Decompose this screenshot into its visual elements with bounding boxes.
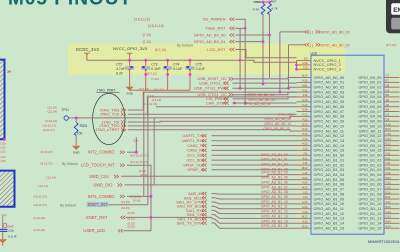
svg-text:SWD_CLK: SWD_CLK <box>89 174 109 179</box>
svg-text:GPIO_AD_B0_01: GPIO_AD_B0_01 <box>194 39 226 44</box>
wire CAN2_RX <box>212 149 297 151</box>
svg-text:M12: M12 <box>302 166 308 170</box>
svg-text:0.1UF: 0.1UF <box>196 67 205 71</box>
svg-text:0.1UF: 0.1UF <box>173 67 182 71</box>
wire SAI1_RX_BCLK <box>212 206 297 209</box>
svg-text:GPIO_AD_B0_04: GPIO_AD_B0_04 <box>247 93 274 97</box>
wire JTAG_nTRST <box>128 130 297 131</box>
svg-text:C73: C73 <box>151 63 157 67</box>
svg-text:A13: A13 <box>386 200 392 204</box>
svg-text:(10,12,17): (10,12,17) <box>33 203 47 207</box>
svg-text:A14: A14 <box>386 224 392 228</box>
svg-text:GPIO_AD_B1_11: GPIO_AD_B1_11 <box>261 205 288 209</box>
svg-text:GPIO_AD_B1_08: GPIO_AD_B1_08 <box>261 190 288 194</box>
svg-text:DCDC_3V3: DCDC_3V3 <box>76 47 100 52</box>
svg-text:N12: N12 <box>302 176 308 180</box>
svg-text:GND: GND <box>73 151 81 155</box>
pin C11 GPIO_B1_02 <box>384 164 400 166</box>
svg-text:GPIO_AD_B1_09: GPIO_AD_B1_09 <box>261 195 288 199</box>
wire bundle v1 <box>143 92 145 196</box>
svg-text:NVCC_GPIO_3V3: NVCC_GPIO_3V3 <box>113 46 148 51</box>
svg-text:TP11: TP11 <box>62 108 70 112</box>
svg-text:A8: A8 <box>386 98 390 102</box>
svg-text:F11: F11 <box>303 93 308 97</box>
svg-text:(9,15): (9,15) <box>133 199 140 203</box>
wire SPDIF_OUT <box>212 164 297 166</box>
svg-text:L13: L13 <box>303 210 308 214</box>
pin F11 GPIO_AD_B0_04 <box>297 96 312 98</box>
svg-text:E12: E12 <box>386 142 392 146</box>
svg-text:E13: E13 <box>302 224 308 228</box>
svg-text:B12: B12 <box>386 176 392 180</box>
wire INT2 riser <box>135 137 137 152</box>
svg-text:E11: E11 <box>386 195 391 199</box>
pin G14 GPIO_AD_B0_05 <box>297 101 312 103</box>
svg-text:C72: C72 <box>116 63 122 67</box>
svg-text:M13: M13 <box>302 215 308 219</box>
svg-text:B8: B8 <box>386 93 390 97</box>
junction <box>262 1 265 4</box>
wire LCD_TOUCH_INT <box>127 165 151 231</box>
svg-text:L14: L14 <box>303 137 308 141</box>
connector fragment lower <box>0 171 14 207</box>
wire GPIO_AD_B0_01 <box>235 41 263 43</box>
pin L14 GPIO_AD_B0_13 <box>297 140 312 142</box>
junction <box>295 64 298 67</box>
wire CAN_STBY <box>233 102 297 104</box>
wire JTAG_TDO <box>128 125 297 127</box>
svg-text:JTAG_MOD: JTAG_MOD <box>278 113 295 117</box>
junction <box>166 59 169 62</box>
svg-text:(9,15): (9,15) <box>128 225 135 229</box>
wire SD_PWREN <box>235 19 245 28</box>
svg-text:(12,15): (12,15) <box>121 206 130 210</box>
wire R57 net <box>269 15 271 79</box>
svg-text:JTAG_P0RT: JTAG_P0RT <box>97 89 116 93</box>
pin M12 GPIO_AD_B1_03 <box>297 169 312 171</box>
pin B9 GPIO_B0_07 <box>384 111 400 113</box>
svg-text:(6,12,17): (6,12,17) <box>43 128 55 132</box>
pin D12 GPIO_B1_07 <box>384 188 400 190</box>
svg-text:SWD_DIO: SWD_DIO <box>93 182 112 187</box>
pin D11 GPIO_B1_03 <box>384 169 400 171</box>
svg-text:LCD_TOUCH_INT: LCD_TOUCH_INT <box>81 162 115 167</box>
pin F13 GPIO_AD_B0_08 <box>297 115 312 117</box>
wire pullup drop A <box>244 28 246 103</box>
svg-text:(7,12): (7,12) <box>143 40 152 44</box>
svg-text:GPIO_AD_B0_06: GPIO_AD_B0_06 <box>244 102 271 106</box>
svg-text:GPIO_AD_B1_06: GPIO_AD_B1_06 <box>261 180 288 184</box>
svg-text:10K: 10K <box>77 132 84 136</box>
svg-text:GPIO_AD_B1_12: GPIO_AD_B1_12 <box>261 210 288 214</box>
svg-text:GPIO_AD_B0_03: GPIO_AD_B0_03 <box>321 30 350 34</box>
pin K11 GPIO_AD_B1_01 <box>297 159 312 161</box>
wire INT2_COMBO <box>127 151 136 153</box>
svg-text:B10: B10 <box>386 127 392 131</box>
wire NVCC_GPIO_3V3 stem <box>129 55 131 61</box>
pin K12 GPIO_AD_B1_14 <box>297 222 312 224</box>
svg-text:GPIO_AD_B1_15: GPIO_AD_B1_15 <box>314 226 345 231</box>
svg-text:UART1_RXD: UART1_RXD <box>182 139 205 143</box>
net alias GPIO_AD_B0_02 <box>305 43 310 46</box>
pin E11 GPIO_B1_09 <box>384 198 400 200</box>
wire UART1_RXD <box>212 140 297 142</box>
ground C72 <box>125 87 134 91</box>
pin B13 GPIO_B1_11 <box>384 208 400 210</box>
pin M14 GPIO_AD_B0_00 <box>297 77 312 79</box>
pin K14 GPIO_AD_B0_12 <box>297 135 312 137</box>
wire SWD_CLK <box>121 175 297 177</box>
pin C10 GPIO_B0_12 <box>384 135 400 137</box>
svg-text:E7: E7 <box>386 79 390 83</box>
svg-text:(9,15): (9,15) <box>128 216 135 220</box>
svg-text:(8,7,12): (8,7,12) <box>386 43 396 47</box>
pin B11 GPIO_B1_01 <box>384 159 400 161</box>
svg-text:MIMXRT1052DVL6B: MIMXRT1052DVL6B <box>368 239 400 244</box>
pin N12 GPIO_AD_B1_05 <box>297 179 312 181</box>
pin E13 GPIO_AD_B1_15 <box>297 227 312 229</box>
svg-text:(6,7,12): (6,7,12) <box>154 87 164 91</box>
wire bundle v2 <box>147 97 149 205</box>
svg-text:(8,7,12): (8,7,12) <box>147 71 157 75</box>
svg-text:J14: J14 <box>303 195 308 199</box>
svg-text:D12: D12 <box>386 186 392 190</box>
pin G12 GPIO_AD_B0_11 <box>297 130 312 132</box>
pin L11 GPIO_AD_B1_02 <box>297 164 312 166</box>
svg-text:A12: A12 <box>386 171 392 175</box>
wire bundle v3 <box>153 118 155 185</box>
svg-text:M14: M14 <box>302 74 308 78</box>
svg-text:B11: B11 <box>386 156 391 160</box>
wire JTAG_TCK branch <box>147 113 296 115</box>
capacitor C73 <box>145 60 147 66</box>
junction <box>268 34 271 37</box>
wire DCDC_3V3 feed <box>87 55 297 63</box>
wire I2C1_SCL <box>212 154 297 156</box>
svg-text:B9: B9 <box>386 108 390 112</box>
svg-text:INT2_COMBO: INT2_COMBO <box>88 150 115 155</box>
svg-text:C13: C13 <box>386 210 392 214</box>
pin D13 GPIO_B0_13 <box>384 140 400 142</box>
wire USB_OTG1_ID <box>233 82 297 84</box>
junction <box>262 40 265 43</box>
junction <box>144 73 147 76</box>
svg-text:J11: J11 <box>303 152 308 156</box>
wire USB_HOST_OC <box>233 78 297 79</box>
wire GPIO_AD_B0_03 <box>280 31 305 33</box>
pin A13 GPIO_B1_10 <box>384 203 400 205</box>
svg-text:GPIO_B1_15: GPIO_B1_15 <box>358 226 381 231</box>
svg-text:UART1_TXD: UART1_TXD <box>182 134 204 138</box>
pin J11 GPIO_AD_B1_00 <box>297 154 312 156</box>
svg-text:(4,8,11,16): (4,8,11,16) <box>134 18 150 22</box>
pin mark <box>8 70 11 72</box>
svg-text:N13: N13 <box>302 181 308 185</box>
svg-text:GPIO_AD_B1_07: GPIO_AD_B1_07 <box>261 185 288 189</box>
svg-text:B13: B13 <box>386 205 392 209</box>
svg-text:GPIO_AD_B1_01: GPIO_AD_B1_01 <box>261 158 288 162</box>
op IC U1E MIMXRT1052 GPIO bank <box>311 55 384 234</box>
svg-text:(4,8,11,16): (4,8,11,16) <box>144 102 158 106</box>
svg-text:H14: H14 <box>302 205 308 209</box>
wire TP11 JTAG_MOD <box>69 116 297 118</box>
pin H14 GPIO_AD_B1_11 <box>297 208 312 210</box>
svg-text:0.1UF: 0.1UF <box>8 234 17 238</box>
pin E10 GPIO_B1_08 <box>384 193 400 195</box>
svg-text:(10,12,17): (10,12,17) <box>42 124 56 128</box>
svg-text:USER_LED: USER_LED <box>83 228 105 233</box>
wire AUD_INT <box>212 193 297 196</box>
junction <box>279 91 282 94</box>
junction <box>144 59 147 62</box>
node JTAG_PORT circle <box>93 93 125 144</box>
wire SAI1_TX_SYNC <box>212 223 297 228</box>
svg-text:J10: J10 <box>303 66 308 70</box>
svg-text:GPIO_AD_B0_10: GPIO_AD_B0_10 <box>264 122 291 126</box>
svg-text:R57: R57 <box>271 0 277 4</box>
pin B12 GPIO_B1_05 <box>384 179 400 181</box>
svg-text:D11: D11 <box>386 166 391 170</box>
pin E9 NVCC_GPIO_1 <box>297 60 312 62</box>
svg-text:A9: A9 <box>386 103 390 107</box>
pin A8 GPIO_B0_05 <box>384 101 400 103</box>
svg-text:SAI1_TX_SYNC: SAI1_TX_SYNC <box>177 222 205 226</box>
svg-text:Flash_RST: Flash_RST <box>205 26 226 31</box>
svg-text:B14: B14 <box>386 220 392 224</box>
svg-text:F13: F13 <box>303 113 308 117</box>
svg-text:EN: EN <box>393 7 400 14</box>
svg-text:G11: G11 <box>302 88 308 92</box>
svg-text:C7: C7 <box>386 74 390 78</box>
junction <box>3 138 6 141</box>
highlight region NVCC_GPIO supply <box>68 44 345 75</box>
wire SPDIF_IN <box>212 169 297 171</box>
svg-text:D9: D9 <box>386 117 390 121</box>
svg-text:K11: K11 <box>303 156 308 160</box>
net alias GPIO_AD_B0_03 <box>305 30 310 33</box>
overlay language widget <box>386 0 400 33</box>
svg-text:LCD_RST: LCD_RST <box>207 47 226 52</box>
wire SAI1_RXD <box>212 210 297 213</box>
pin L13 GPIO_AD_B1_12 <box>297 213 312 215</box>
capacitor C75 <box>189 60 191 66</box>
junction <box>135 151 138 154</box>
svg-text:L12: L12 <box>303 171 308 175</box>
pin D8 GPIO_B0_02 <box>384 86 400 88</box>
svg-text:GPIO_AD_B1_15: GPIO_AD_B1_15 <box>261 224 288 228</box>
svg-text:GPIO_AD_B1_02: GPIO_AD_B1_02 <box>261 163 288 167</box>
svg-text:D8: D8 <box>386 83 390 87</box>
svg-text:A11: A11 <box>386 152 391 156</box>
junction <box>239 87 242 90</box>
svg-text:R303: R303 <box>80 124 88 128</box>
svg-text:ENET_INT: ENET_INT <box>88 202 108 207</box>
pin H10 GPIO_AD_B0_01 <box>297 81 312 83</box>
svg-text:GPIO_AD_B0_00: GPIO_AD_B0_00 <box>194 32 226 37</box>
svg-text:SD_PWREN: SD_PWREN <box>203 17 226 22</box>
wire USB_OTG1_PWR <box>233 87 297 88</box>
svg-text:J12: J12 <box>303 147 308 151</box>
junction <box>150 195 153 198</box>
wire JTAG_TMS <box>128 92 297 110</box>
svg-text:(6,9,12,15,17): (6,9,12,15,17) <box>130 160 147 164</box>
svg-text:GPIO_AD_B1_10: GPIO_AD_B1_10 <box>261 200 288 204</box>
junction <box>166 73 169 76</box>
svg-text:M11: M11 <box>302 83 308 87</box>
svg-text:(13): (13) <box>1 150 6 154</box>
svg-text:(4,10,12): (4,10,12) <box>33 228 45 232</box>
wire NVCC pin tie <box>296 61 298 70</box>
pin G13 GPIO_AD_B0_10 <box>297 125 312 127</box>
pin J10 NVCC_GPIO_3 <box>297 68 312 70</box>
junction <box>189 73 192 76</box>
pin E7 GPIO_B0_01 <box>384 81 400 83</box>
svg-text:4.7K: 4.7K <box>253 8 260 12</box>
pin J12 GPIO_AD_B0_15 <box>297 149 312 151</box>
wire GPIO_AD_B0_02 <box>289 44 305 46</box>
pin C8 GPIO_B0_03 <box>384 91 400 93</box>
wire SWD_DIO <box>125 183 297 186</box>
pin E14 GPIO_AD_B0_07 <box>297 111 312 113</box>
svg-text:A10: A10 <box>386 122 392 126</box>
svg-text:JTAG_TCK: JTAG_TCK <box>100 112 120 117</box>
wire CSI_PWDN <box>233 97 297 99</box>
svg-text:USB_OTG1_PWR: USB_OTG1_PWR <box>194 86 227 91</box>
pin J13 GPIO_AD_B1_08 <box>297 193 312 195</box>
junction <box>262 83 265 86</box>
junction <box>128 59 131 62</box>
pin A14 GPIO_B1_15 <box>384 227 400 229</box>
svg-text:GND: GND <box>126 91 134 95</box>
pin M11 GPIO_AD_B0_02 <box>297 86 312 88</box>
svg-text:C8: C8 <box>386 88 390 92</box>
pin M13 GPIO_AD_B1_07 <box>297 188 312 190</box>
svg-text:(12,14): (12,14) <box>47 110 57 114</box>
svg-text:G14: G14 <box>302 98 308 102</box>
wire Flash_RST <box>235 27 245 29</box>
svg-text:J13: J13 <box>303 190 308 194</box>
svg-text:GPIO_AD_B1_00: GPIO_AD_B1_00 <box>261 153 288 157</box>
pin B8 GPIO_B0_04 <box>384 96 400 98</box>
svg-text:GPIO_AD_B0_11: GPIO_AD_B0_11 <box>263 127 290 131</box>
node ENET_INT <box>87 202 109 207</box>
svg-text:By Default: By Default <box>62 162 78 166</box>
svg-text:(6,9,12,15,17): (6,9,12,15,17) <box>130 154 147 158</box>
wire SAI1_TXD <box>212 215 297 219</box>
svg-text:G13: G13 <box>302 122 308 126</box>
junction <box>295 68 298 71</box>
svg-text:(6,7,12): (6,7,12) <box>139 87 149 91</box>
junction <box>287 87 290 90</box>
wire UART1_TXD <box>212 135 297 137</box>
junction <box>244 27 247 30</box>
junction <box>239 59 242 62</box>
pin A11 GPIO_B1_00 <box>384 154 400 156</box>
wire R56 net <box>262 15 264 85</box>
wire pullup tops <box>253 1 270 3</box>
svg-text:F10: F10 <box>303 61 308 65</box>
junction <box>75 117 78 120</box>
svg-text:E9: E9 <box>304 57 308 61</box>
svg-text:(9,15): (9,15) <box>128 211 135 215</box>
wire JTAG_TCK <box>128 97 297 114</box>
capacitor C72 <box>129 60 131 66</box>
svg-text:(6,12,17): (6,12,17) <box>40 150 52 154</box>
svg-text:(4,10,12): (4,10,12) <box>33 216 45 220</box>
svg-text:(9,12): (9,12) <box>140 173 147 177</box>
svg-text:GPIO_AD_B1_13: GPIO_AD_B1_13 <box>261 214 288 218</box>
pin H13 GPIO_AD_B1_10 <box>297 203 312 205</box>
svg-text:(7,12): (7,12) <box>151 77 159 81</box>
svg-text:K14: K14 <box>302 132 308 136</box>
junction <box>233 102 236 105</box>
wire cap ground bus <box>130 89 190 91</box>
svg-text:L11: L11 <box>303 161 308 165</box>
pin B10 GPIO_B0_11 <box>384 130 400 132</box>
svg-text:(14): (14) <box>133 139 138 143</box>
resistor R303 <box>75 118 77 122</box>
pin F10 NVCC_GPIO_2 <box>297 64 312 66</box>
svg-text:GPIO_AD_B1_04: GPIO_AD_B1_04 <box>261 171 288 175</box>
svg-text:F12: F12 <box>303 117 308 121</box>
svg-text:(4,8,11,16): (4,8,11,16) <box>148 24 164 28</box>
svg-text:C10: C10 <box>386 132 392 136</box>
svg-text:E13: E13 <box>386 147 392 151</box>
svg-text:GPIO_AD_B0_02: GPIO_AD_B0_02 <box>321 43 350 47</box>
svg-text:4.7uF: 4.7uF <box>116 67 125 71</box>
svg-text:By Default: By Default <box>60 203 76 207</box>
junction <box>268 1 271 4</box>
wire USER_LED <box>123 230 151 232</box>
pin L12 GPIO_AD_B1_04 <box>297 174 312 176</box>
svg-text:6.3V: 6.3V <box>116 71 124 75</box>
pin A9 GPIO_B0_06 <box>384 106 400 108</box>
wire R303 gnd <box>75 136 77 146</box>
svg-text:(12,15): (12,15) <box>121 200 130 204</box>
pin J14 GPIO_AD_B1_09 <box>297 198 312 200</box>
svg-text:(12,14): (12,14) <box>46 176 56 180</box>
wire SAI1_MCLK <box>212 198 297 199</box>
svg-text:C75: C75 <box>196 63 202 67</box>
junction <box>150 216 153 219</box>
wire GPIO_AD_B0_00 <box>235 34 269 36</box>
pin C9 GPIO_B0_08 <box>384 115 400 117</box>
svg-text:K12: K12 <box>302 220 308 224</box>
capacitor C26 DNP <box>2 216 4 229</box>
svg-text:C12: C12 <box>386 181 392 185</box>
svg-text:(13): (13) <box>1 159 6 163</box>
ground R303 <box>72 146 81 150</box>
pin F14 GPIO_AD_B0_06 <box>297 106 312 108</box>
junction <box>244 102 247 105</box>
pin G11 GPIO_AD_B0_03 <box>297 91 312 93</box>
svg-text:GPIO_AD_B0_09: GPIO_AD_B0_09 <box>264 117 291 121</box>
pin E12 GPIO_B0_14 <box>384 145 400 147</box>
wire CAN2_TX <box>212 145 297 147</box>
wire SAI1_TX_BCLK <box>212 219 297 224</box>
wire pullup drop B <box>239 28 241 88</box>
svg-text:ENET_RST: ENET_RST <box>86 215 108 220</box>
capacitor C74 <box>167 60 169 66</box>
svg-text:C74: C74 <box>173 63 179 67</box>
pin C7 GPIO_B0_00 <box>384 77 400 79</box>
svg-text:(10,12,17): (10,12,17) <box>33 195 47 199</box>
pin D13 GPIO_B1_13 <box>384 217 400 219</box>
pin C13 GPIO_B1_12 <box>384 213 400 215</box>
wire C26 gnd <box>2 232 4 239</box>
svg-text:By Default: By Default <box>177 44 193 48</box>
wire row6 <box>156 106 297 108</box>
